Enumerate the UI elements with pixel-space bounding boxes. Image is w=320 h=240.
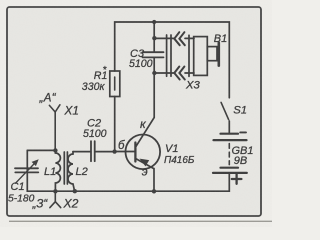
wire C3 branch upper [153,22,155,52]
core line 2 [66,152,68,184]
minus sign [240,131,246,133]
resistor R1 [110,71,120,97]
node top-rail/C3 [152,20,156,24]
wire base [115,151,135,153]
capacitor C3 [143,52,164,57]
inductor L2 [68,152,75,192]
transistor V1 base bar [134,143,136,162]
wire C3 to collector [136,57,154,146]
wire top rail [115,22,230,98]
connector X2 ground fork [50,191,61,207]
node L1 bottom [53,189,57,193]
wire X3 top lead [154,37,173,39]
connector X3 socket bars [167,35,171,76]
node emitter/rail [152,189,156,193]
switch S1 [221,102,229,119]
page edge line [9,220,272,222]
node antenna/L1 [53,148,57,152]
paper texture overlay [0,0,1,1]
transistor V1 circle [126,135,161,170]
node base junction [112,149,116,153]
wire L2 to C2 [73,151,91,153]
plus sign [232,174,242,183]
wire C2 to base node [95,151,115,153]
wire emitter down [153,169,155,192]
connector X1 antenna fork [49,105,60,151]
battery dashed link [228,144,230,165]
inductor L1 [55,150,60,191]
node X3 bottom [152,71,156,75]
core [63,152,65,184]
battery GB1 [213,134,247,173]
node X3 top [152,36,156,40]
earphone B1 [189,35,219,76]
capacitor C2 [91,141,95,161]
wire tank top [27,149,55,151]
wire X3 bottom lead [154,72,173,74]
wire R1 to base node [114,97,116,152]
connector X3 plug arrows [174,32,185,79]
transistor V1 emitter [136,159,154,169]
C1 adjustment arrow [16,162,36,183]
node L2 bottom [73,189,77,193]
capacitor C1 variable [15,168,38,172]
wire bottom rail [27,150,229,191]
